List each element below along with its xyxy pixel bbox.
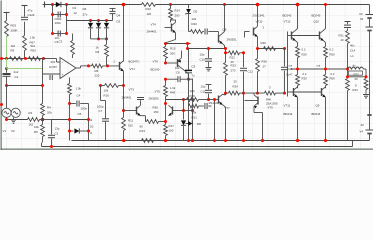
svg-text:R36: R36 xyxy=(153,106,159,110)
svg-text:1.0k: 1.0k xyxy=(76,87,82,91)
svg-text:V4: V4 xyxy=(360,130,364,134)
capacitor C6 xyxy=(164,76,193,82)
resistor R29 0.2 xyxy=(296,47,307,70)
node dots mid rail xyxy=(123,139,328,142)
svg-text:13p: 13p xyxy=(55,127,60,131)
svg-text:V2: V2 xyxy=(11,129,15,133)
transistor VT7 2N4401 xyxy=(209,93,231,142)
svg-text:R15: R15 xyxy=(170,47,176,51)
svg-text:R8: R8 xyxy=(95,69,99,73)
svg-text:V1: V1 xyxy=(3,129,7,133)
transistor VT11 BD244 xyxy=(284,87,300,142)
wire xyxy=(346,69,368,78)
capacitor C5 100n xyxy=(70,101,89,117)
wire xyxy=(213,98,216,141)
capacitor C12 xyxy=(240,53,253,141)
svg-text:R63: R63 xyxy=(31,49,37,53)
capacitor C3 10n xyxy=(51,31,68,45)
svg-text:R23: R23 xyxy=(231,64,237,68)
svg-text:27v: 27v xyxy=(83,13,88,17)
resistor R11 510 xyxy=(122,111,134,143)
capacitor C2 13p xyxy=(43,120,60,149)
ground xyxy=(363,92,369,98)
svg-text:D2: D2 xyxy=(90,125,94,129)
svg-text:D4: D4 xyxy=(117,14,121,18)
svg-text:VT11: VT11 xyxy=(284,104,291,108)
svg-text:0.2: 0.2 xyxy=(330,48,334,52)
svg-text:D1: D1 xyxy=(73,6,77,10)
svg-text:C14: C14 xyxy=(350,49,356,53)
wire xyxy=(122,86,125,113)
terminal IN xyxy=(4,13,10,21)
capacitor C8b xyxy=(205,29,219,35)
zener D9 xyxy=(186,121,202,126)
wire box sides xyxy=(70,104,89,141)
svg-text:270: 270 xyxy=(231,69,236,73)
svg-text:1k2: 1k2 xyxy=(11,44,16,48)
transistor VT6 BD140 xyxy=(151,51,189,80)
svg-text:20k: 20k xyxy=(47,111,52,115)
resistor R5 10k xyxy=(34,120,44,143)
svg-text:out: out xyxy=(289,64,293,68)
wire xyxy=(44,59,61,63)
svg-text:−: − xyxy=(62,61,64,65)
svg-text:D8: D8 xyxy=(197,122,201,126)
transistor VT12 BD243 xyxy=(283,5,298,47)
resistor R17 100 xyxy=(164,124,175,142)
transistor VT9 2SA1930 xyxy=(245,93,278,142)
resistor 1k0 C4 xyxy=(68,78,82,106)
svg-text:R11: R11 xyxy=(128,119,133,123)
svg-text:100: 100 xyxy=(190,89,195,93)
svg-text:27: 27 xyxy=(263,65,267,69)
diode D8 xyxy=(181,79,194,143)
capacitor C10 10p xyxy=(200,47,213,71)
resistor R20 10k xyxy=(189,14,198,32)
svg-text:C223: C223 xyxy=(28,13,35,17)
resistor R23 270 xyxy=(224,53,237,93)
svg-text:10k: 10k xyxy=(175,66,180,70)
battery V3 32 xyxy=(359,12,373,113)
battery V4 32 xyxy=(360,113,373,141)
terminal X1 xyxy=(43,2,45,8)
resistor R63 5k1 xyxy=(29,44,41,60)
transistor Q8 2N5551 xyxy=(219,5,238,49)
resistor R31 40 xyxy=(339,31,350,70)
wire xyxy=(6,37,8,59)
svg-text:100n: 100n xyxy=(55,21,62,25)
zener D6 xyxy=(83,7,94,39)
resistor R22 20 xyxy=(224,51,245,64)
svg-text:5k1: 5k1 xyxy=(31,44,36,48)
svg-text:C11: C11 xyxy=(201,90,206,94)
resistor R45 xyxy=(261,41,276,50)
wire +V top rail xyxy=(45,5,370,15)
svg-text:2N4401: 2N4401 xyxy=(147,30,158,34)
resistor R4 20k xyxy=(41,104,53,120)
resistor R14 200 xyxy=(169,5,181,23)
svg-text:BD140: BD140 xyxy=(151,68,160,72)
svg-text:+: + xyxy=(62,73,64,77)
svg-text:R13: R13 xyxy=(140,129,146,133)
wire box mid xyxy=(52,118,93,122)
svg-text:90: 90 xyxy=(140,125,144,129)
node dots top rail xyxy=(51,3,327,7)
svg-text:10p: 10p xyxy=(200,53,205,57)
svg-text:4u: 4u xyxy=(353,64,356,68)
svg-text:2SC1941: 2SC1941 xyxy=(253,14,265,18)
wire xyxy=(103,64,120,67)
diode D2 xyxy=(68,125,94,136)
svg-text:C4: C4 xyxy=(77,94,81,98)
svg-text:100: 100 xyxy=(169,129,174,133)
svg-text:2N4401: 2N4401 xyxy=(209,101,220,105)
svg-text:VT3: VT3 xyxy=(129,88,135,92)
svg-text:L1: L1 xyxy=(351,54,355,58)
svg-text:R16: R16 xyxy=(104,94,110,98)
resistor R19 100 xyxy=(166,89,215,101)
svg-text:2u2: 2u2 xyxy=(14,70,19,74)
wire outer bottom rail xyxy=(42,141,353,147)
svg-text:C2: C2 xyxy=(55,132,59,136)
wire output rail xyxy=(289,64,350,71)
svg-text:R4: R4 xyxy=(47,106,51,110)
svg-text:10p: 10p xyxy=(201,85,206,89)
svg-text:C1: C1 xyxy=(15,75,19,79)
svg-text:out: out xyxy=(317,64,321,68)
svg-text:1k2: 1k2 xyxy=(29,123,34,127)
resistor R6 1k xyxy=(96,39,109,66)
wire row y48 xyxy=(186,47,227,53)
svg-text:R21: R21 xyxy=(192,116,198,120)
resistor R33 8 xyxy=(353,79,368,93)
capacitor C002 100n xyxy=(51,12,68,26)
svg-text:100p: 100p xyxy=(97,105,104,109)
svg-text:7u: 7u xyxy=(192,74,196,78)
svg-text:VT9: VT9 xyxy=(268,105,274,109)
resistor R36 150 xyxy=(146,106,166,124)
svg-text:0.2: 0.2 xyxy=(303,72,307,76)
wire green xyxy=(7,59,43,69)
wire row y48 right xyxy=(256,47,286,50)
svg-text:12: 12 xyxy=(74,11,78,15)
svg-text:32: 32 xyxy=(361,123,365,127)
op-amp U1 LF357 xyxy=(43,58,77,81)
svg-text:BD244: BD244 xyxy=(284,112,293,116)
svg-text:VT4: VT4 xyxy=(151,23,157,27)
svg-text:2N5550: 2N5550 xyxy=(149,97,160,101)
svg-text:R6: R6 xyxy=(96,50,100,54)
svg-text:R24: R24 xyxy=(233,85,239,89)
svg-text:R22: R22 xyxy=(230,56,236,60)
source V2 xyxy=(11,108,20,133)
resistor R03 200K xyxy=(5,21,18,37)
svg-text:C7: C7 xyxy=(99,109,103,113)
svg-text:20: 20 xyxy=(234,80,238,84)
resistor R24 20 xyxy=(224,80,245,96)
resistor R30 xyxy=(296,69,307,88)
svg-text:0.2: 0.2 xyxy=(331,72,335,76)
svg-text:C5: C5 xyxy=(78,112,82,116)
svg-text:2N5551: 2N5551 xyxy=(227,38,238,42)
resistor R13 90 xyxy=(140,125,154,143)
svg-text:2N5401: 2N5401 xyxy=(122,95,133,99)
resistor R10 1k5 xyxy=(142,2,156,16)
svg-text:40: 40 xyxy=(341,38,345,42)
svg-text:D6: D6 xyxy=(83,7,87,11)
svg-text:BD244: BD244 xyxy=(312,112,321,116)
svg-text:10k: 10k xyxy=(192,111,197,115)
svg-text:220: 220 xyxy=(95,74,100,78)
svg-text:1k5: 1k5 xyxy=(147,12,152,16)
capacitor C11 10p xyxy=(201,85,213,102)
zener D8a xyxy=(104,21,109,39)
svg-text:R9: R9 xyxy=(11,49,15,53)
capacitor C7 100p xyxy=(97,86,109,141)
svg-text:32: 32 xyxy=(360,17,364,21)
svg-text:R2: R2 xyxy=(29,111,33,115)
resistor R40 1k0 xyxy=(149,79,176,124)
svg-text:R17: R17 xyxy=(169,124,175,128)
svg-text:R14: R14 xyxy=(175,9,181,13)
svg-text:0.2: 0.2 xyxy=(302,48,306,52)
svg-text:LF357: LF357 xyxy=(49,65,57,69)
resistor R7 xyxy=(59,34,75,59)
capacitor C13 0u47 xyxy=(281,49,293,95)
ground xyxy=(11,118,16,124)
resistor R2 1k2 xyxy=(28,111,40,127)
svg-text:BD243: BD243 xyxy=(283,14,292,18)
svg-text:R30: R30 xyxy=(302,77,308,81)
wire xyxy=(123,5,125,62)
svg-text:510: 510 xyxy=(128,124,133,128)
wire row y43 xyxy=(164,42,191,49)
svg-text:47p: 47p xyxy=(28,9,33,13)
wire xyxy=(40,118,45,122)
resistor R21 10k xyxy=(189,103,212,120)
svg-text:VT10: VT10 xyxy=(256,20,263,24)
svg-text:R59: R59 xyxy=(330,77,336,81)
wire -V mid rail xyxy=(72,140,370,142)
resistor R16 10k xyxy=(99,84,124,98)
resistor R59 xyxy=(324,69,335,88)
wire xyxy=(41,59,44,104)
wire xyxy=(189,30,204,34)
svg-text:R10: R10 xyxy=(146,7,152,11)
zener D5 xyxy=(185,5,197,15)
transistor VT1 BC547C xyxy=(114,60,140,72)
svg-text:C8: C8 xyxy=(176,71,180,75)
svg-text:C3: C3 xyxy=(59,40,63,44)
transistor VT5 xyxy=(169,105,186,115)
svg-text:R31: R31 xyxy=(339,34,345,38)
svg-text:40n: 40n xyxy=(350,44,355,48)
svg-text:D3: D3 xyxy=(117,20,121,24)
wire opamp out xyxy=(76,64,92,68)
svg-text:VT1: VT1 xyxy=(130,67,136,71)
svg-text:0u47: 0u47 xyxy=(286,73,293,77)
source V1 xyxy=(2,108,11,133)
svg-text:VT5: VT5 xyxy=(155,90,161,94)
capacitor C4a xyxy=(110,9,121,24)
wire xyxy=(122,71,125,87)
wire xyxy=(5,84,43,108)
resistor R26 27 xyxy=(256,49,268,95)
svg-text:R03: R03 xyxy=(11,24,17,28)
svg-text:VT6: VT6 xyxy=(153,60,159,64)
wire input row xyxy=(0,57,45,106)
svg-text:10k: 10k xyxy=(104,89,109,93)
svg-text:BD243: BD243 xyxy=(312,14,321,18)
resistor R9 1k2 xyxy=(10,44,23,60)
svg-text:R40: R40 xyxy=(170,91,176,95)
capacitor C9 4u7 xyxy=(185,49,196,143)
svg-text:V3: V3 xyxy=(359,12,363,16)
svg-text:C9: C9 xyxy=(192,65,196,69)
transistor VT4 2N4401 xyxy=(147,20,176,44)
svg-text:R5: R5 xyxy=(34,130,38,134)
svg-text:10k: 10k xyxy=(34,125,39,129)
svg-text:1.0k: 1.0k xyxy=(170,86,176,90)
diode D1 xyxy=(45,2,78,15)
resistor R50 0.2 xyxy=(324,47,335,70)
svg-text:150: 150 xyxy=(154,110,159,114)
svg-text:200K: 200K xyxy=(11,29,18,33)
svg-text:C12: C12 xyxy=(248,70,254,74)
capacitor C1 2u2 xyxy=(3,69,19,86)
resistor R67 1k0 xyxy=(23,22,36,59)
resistor R8 220 xyxy=(92,64,103,78)
zener D7 xyxy=(96,21,101,39)
resistor R32 20 xyxy=(346,73,359,141)
svg-text:Q10: Q10 xyxy=(314,20,320,24)
svg-text:441: 441 xyxy=(51,60,56,64)
resistor R15 300 xyxy=(164,44,176,65)
svg-text:300: 300 xyxy=(170,52,175,56)
svg-text:R26: R26 xyxy=(262,60,268,64)
wire xyxy=(53,5,67,34)
transistor Q10 BD243 xyxy=(292,5,326,47)
svg-text:Q9: Q9 xyxy=(316,104,320,108)
svg-text:100n: 100n xyxy=(81,107,88,111)
inductor L1 xyxy=(348,54,367,77)
transistor VT3 2N5401 xyxy=(122,88,146,122)
svg-text:D5: D5 xyxy=(194,10,198,14)
resistor R46 3 xyxy=(244,86,285,96)
svg-text:R32: R32 xyxy=(354,73,360,77)
capacitor C14 40n xyxy=(344,22,356,53)
svg-text:R46: R46 xyxy=(261,41,267,45)
transistor VT10 2SC1941 xyxy=(245,5,265,49)
wire xyxy=(67,19,113,40)
svg-text:20: 20 xyxy=(355,77,359,81)
svg-text:C10: C10 xyxy=(200,58,206,62)
svg-text:R20: R20 xyxy=(192,22,198,26)
wire xyxy=(5,118,28,122)
svg-text:R50: R50 xyxy=(330,53,336,57)
svg-text:200: 200 xyxy=(175,14,180,18)
svg-text:R19: R19 xyxy=(190,94,196,98)
svg-text:1.0k: 1.0k xyxy=(30,36,36,40)
capacitor C223 xyxy=(21,6,35,20)
svg-text:BC547C: BC547C xyxy=(129,60,140,64)
transistor Q9 BD244 xyxy=(291,87,328,142)
svg-text:R33: R33 xyxy=(353,88,359,92)
node dot xyxy=(5,67,8,70)
svg-text:VT12: VT12 xyxy=(284,20,291,24)
svg-text:10k: 10k xyxy=(192,17,197,21)
wire bias col xyxy=(288,32,292,97)
svg-text:R29: R29 xyxy=(302,53,308,57)
